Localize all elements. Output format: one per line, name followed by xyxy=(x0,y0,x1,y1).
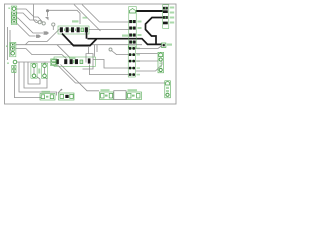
wire black S-route CN3 pin3 xyxy=(146,18,164,45)
wire JP1 pad2 diagonal down xyxy=(61,65,100,91)
coil turn 1 xyxy=(19,62,57,96)
wire CN4 pad1 right xyxy=(136,46,163,49)
wire drop to R2 top xyxy=(44,62,46,65)
wire flag F2 stub xyxy=(47,11,49,17)
connector CN2 xyxy=(122,7,142,49)
wire JP1 pad1 diagonal down xyxy=(57,65,165,84)
resistor R1 xyxy=(31,63,37,78)
flag F2 xyxy=(45,17,49,20)
wire hook around JP1 pad5 xyxy=(83,54,94,69)
coil trace top horizontal xyxy=(17,61,51,63)
via V2 xyxy=(38,21,41,24)
resistor R2 xyxy=(41,63,47,78)
wire X1 to C1 xyxy=(15,73,42,98)
wire keepout diagonal A xyxy=(74,5,101,32)
wire black long horizontal xyxy=(88,39,164,45)
wire left edge vertical 1 xyxy=(7,27,9,60)
wire CN4 pad3 to R5 xyxy=(136,60,159,62)
connector SV1 xyxy=(8,6,16,25)
wire CN4 pad5 from JP1 xyxy=(90,65,129,75)
wire from SV1 pad2 to flag F1 xyxy=(16,18,43,33)
capacitor C3 cluster right xyxy=(127,89,142,99)
coil turn 2 xyxy=(24,62,47,88)
connector CN3 xyxy=(163,5,175,29)
wire pad to IC1 pin xyxy=(49,10,81,24)
wire from SV1 pad1 to via V2 xyxy=(16,13,39,22)
wire left edge vertical 2 xyxy=(9,30,11,56)
wire SV2 pad2 staircase xyxy=(16,49,67,59)
connector SV2 xyxy=(6,42,16,57)
wire net G44 long horizontal xyxy=(16,44,143,46)
capacitor C2 cluster left xyxy=(100,89,114,99)
via V4 xyxy=(109,48,112,51)
wire via V4 to CN4 pad2 xyxy=(112,51,129,55)
capacitor C5 xyxy=(51,59,57,66)
wire black top to CN3 xyxy=(136,10,163,12)
connector CN4 xyxy=(128,46,140,77)
board outline xyxy=(5,4,177,104)
wire from SV1 circle pad to via V1 xyxy=(16,9,43,23)
via V1 xyxy=(42,22,45,25)
wire IC1 pin1 gray to G44 xyxy=(26,29,60,45)
wire keepout diagonal B xyxy=(82,5,129,23)
connector X1 xyxy=(7,60,17,72)
module outline box xyxy=(136,54,162,71)
resistor R5 xyxy=(158,52,164,73)
coil turn 3 xyxy=(28,62,40,84)
via pad at flag F2 xyxy=(46,9,49,12)
wire G44 drop to JP1 xyxy=(94,45,96,57)
via V3 xyxy=(52,23,55,26)
flag F1 xyxy=(44,31,50,34)
resistor R6 right edge xyxy=(165,81,171,98)
wire stub x97 xyxy=(96,45,98,53)
diode D1 bottom xyxy=(58,89,74,100)
crystal Q1 xyxy=(114,91,126,100)
pad P1 black trace end xyxy=(162,43,173,47)
label between R1 R2 xyxy=(38,69,40,74)
wire CN4 pad4 from test pad xyxy=(93,60,128,69)
wire from border to via V2 xyxy=(34,5,39,23)
wire black IC1 pin1 branch xyxy=(62,34,97,46)
wire black IC1 pin5 drop xyxy=(86,32,88,39)
wire stub to hook xyxy=(88,46,90,54)
connector JP1 xyxy=(54,57,96,66)
flag F3 xyxy=(36,35,41,38)
capacitor C1 bottom left xyxy=(40,91,55,100)
IC1 xyxy=(58,17,89,34)
wire via V3 stub xyxy=(52,26,54,30)
wire from SV1 pad3 to flag F3 xyxy=(16,23,36,37)
wire branch diagonal to JP1 xyxy=(57,45,70,58)
wire to CN2 pad row 2 xyxy=(89,29,129,31)
